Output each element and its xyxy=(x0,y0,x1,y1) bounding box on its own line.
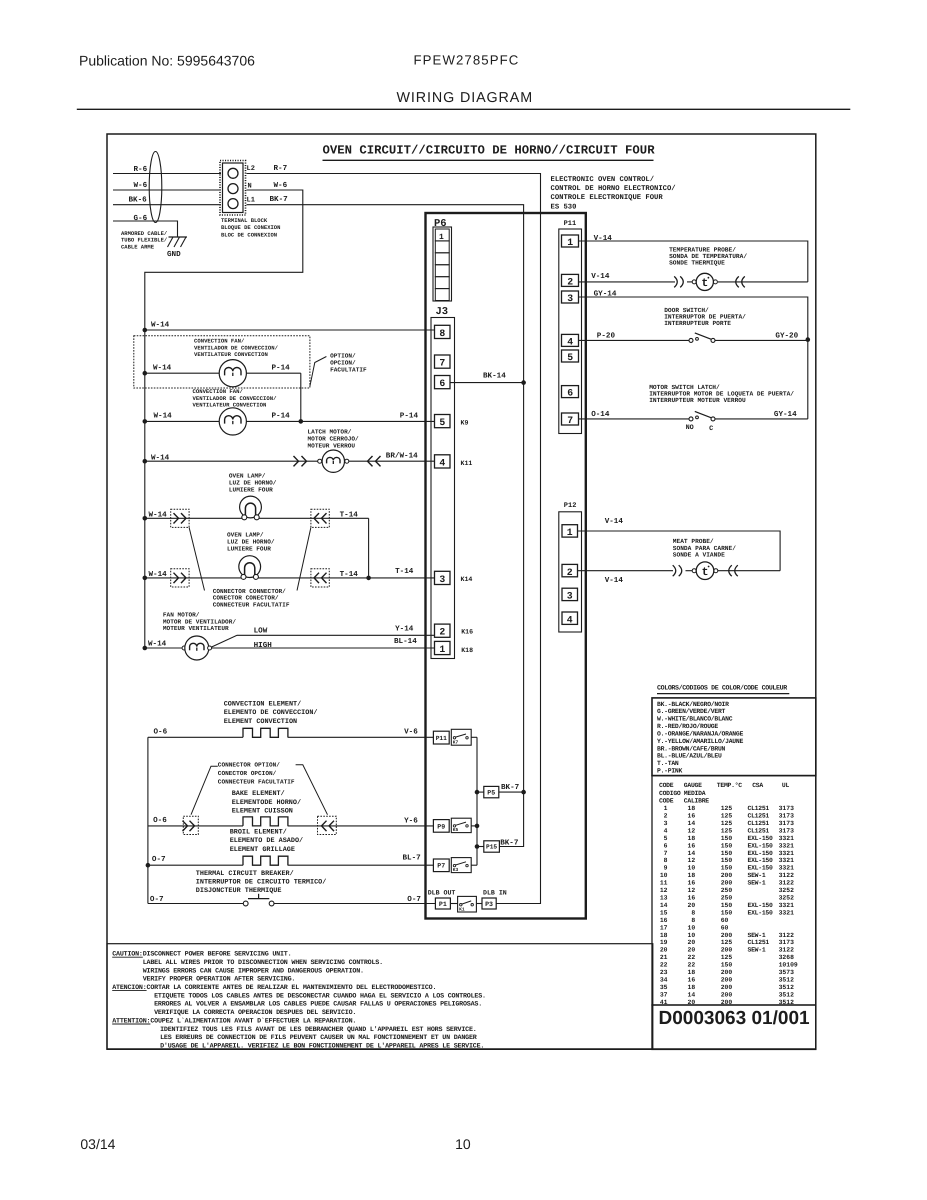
svg-text:BK.-BLACK/NEGRO/NOIR: BK.-BLACK/NEGRO/NOIR xyxy=(657,701,729,708)
svg-text:MEDIDA: MEDIDA xyxy=(684,790,706,797)
drawing number box D0003063 xyxy=(652,1005,816,1049)
svg-text:LUMIERE FOUR: LUMIERE FOUR xyxy=(227,546,271,553)
svg-text:18: 18 xyxy=(688,969,696,976)
svg-text:EXL-150: EXL-150 xyxy=(748,857,774,864)
svg-text:GY-14: GY-14 xyxy=(774,410,797,419)
svg-text:16: 16 xyxy=(660,917,668,924)
svg-text:T.-TAN: T.-TAN xyxy=(657,760,679,767)
motor latch switch S2 xyxy=(686,410,808,433)
convection fan 2 caption xyxy=(193,388,278,409)
svg-text:C: C xyxy=(709,425,713,433)
svg-text:10: 10 xyxy=(688,865,696,872)
svg-text:TERMINAL BLOCK: TERMINAL BLOCK xyxy=(221,217,268,224)
svg-text:Y-14: Y-14 xyxy=(395,625,414,633)
svg-text:V-14: V-14 xyxy=(605,518,624,526)
svg-text:O-14: O-14 xyxy=(591,410,610,419)
svg-text:SEW-1: SEW-1 xyxy=(748,947,766,954)
outer diagram border xyxy=(107,134,816,1049)
svg-text:UL: UL xyxy=(782,782,790,789)
svg-text:K9: K9 xyxy=(461,420,469,427)
svg-text:3321: 3321 xyxy=(779,835,795,842)
wire O-14 P11 pin7 xyxy=(579,410,690,419)
svg-text:O.-ORANGE/NARANJA/ORANGE: O.-ORANGE/NARANJA/ORANGE xyxy=(657,731,743,738)
svg-text:22: 22 xyxy=(688,962,696,969)
svg-text:VERIFIQUE LA CORRECTA OPERACIO: VERIFIQUE LA CORRECTA OPERACION DESPUES … xyxy=(154,1009,356,1017)
svg-text:P6: P6 xyxy=(434,218,447,230)
armored cable label xyxy=(121,230,168,251)
svg-text:12: 12 xyxy=(688,828,696,835)
wire R-7 from terminal L2 down to DLB IN xyxy=(247,165,541,904)
connector P1, relay K1, connector P3 xyxy=(435,896,496,912)
svg-text:12: 12 xyxy=(660,887,668,894)
svg-text:SONDE A VIANDE: SONDE A VIANDE xyxy=(673,551,725,558)
svg-text:ELEMENT GRILLAGE: ELEMENT GRILLAGE xyxy=(230,846,295,854)
convection fan 1 caption xyxy=(194,338,279,359)
svg-text:CALIBRE: CALIBRE xyxy=(684,798,710,805)
svg-text:3321: 3321 xyxy=(779,909,795,916)
svg-text:MOTOR CERROJO/: MOTOR CERROJO/ xyxy=(308,436,360,443)
svg-text:Y.-YELLOW/AMARILLO/JAUNE: Y.-YELLOW/AMARILLO/JAUNE xyxy=(657,738,743,745)
svg-text:20: 20 xyxy=(688,939,696,946)
svg-text:W-14: W-14 xyxy=(153,365,172,373)
svg-text:2: 2 xyxy=(567,567,573,578)
svg-text:18: 18 xyxy=(688,984,696,991)
svg-text:6: 6 xyxy=(439,378,445,389)
svg-text:EXL-150: EXL-150 xyxy=(748,835,774,842)
svg-text:K11: K11 xyxy=(461,460,473,467)
svg-text:MOTEUR VERROU: MOTEUR VERROU xyxy=(308,443,356,450)
svg-text:8: 8 xyxy=(439,328,445,339)
svg-text:P-14: P-14 xyxy=(400,413,419,421)
svg-text:3512: 3512 xyxy=(779,977,795,984)
temperature probe caption xyxy=(669,246,747,266)
svg-text:3173: 3173 xyxy=(779,813,795,820)
svg-text:GY-14: GY-14 xyxy=(594,290,617,299)
connector option caption with leaders xyxy=(191,762,328,815)
svg-text:150: 150 xyxy=(721,962,733,969)
svg-text:COLORS/CODIGOS DE COLOR/CODE C: COLORS/CODIGOS DE COLOR/CODE COULEUR xyxy=(657,684,787,691)
svg-text:GY-20: GY-20 xyxy=(775,332,798,341)
svg-text:EXL-150: EXL-150 xyxy=(748,909,774,916)
svg-text:BL.-BLUE/AZUL/BLEU: BL.-BLUE/AZUL/BLEU xyxy=(657,753,722,760)
svg-text:23: 23 xyxy=(660,969,668,976)
svg-text:EXL-150: EXL-150 xyxy=(748,842,774,849)
svg-text:ELEMENTODE HORNO/: ELEMENTODE HORNO/ xyxy=(232,799,301,807)
svg-text:P-14: P-14 xyxy=(272,413,291,421)
svg-text:K14: K14 xyxy=(461,576,473,583)
wire fan1 to fan2 junction xyxy=(299,373,304,424)
motor switch latch caption xyxy=(649,384,794,404)
svg-text:10: 10 xyxy=(455,1136,471,1152)
svg-text:W-6: W-6 xyxy=(134,181,148,190)
svg-text:VERIFY PROPER OPERATION AFTER: VERIFY PROPER OPERATION AFTER SERVICING. xyxy=(143,976,296,984)
svg-text:OVEN CIRCUIT//CIRCUITO DE HORN: OVEN CIRCUIT//CIRCUITO DE HORNO//CIRCUIT… xyxy=(323,143,656,157)
svg-text:INTERRUPTOR DE CIRCUITO TERMIC: INTERRUPTOR DE CIRCUITO TERMICO/ xyxy=(196,879,327,887)
svg-text:THERMAL CIRCUIT BREAKER/: THERMAL CIRCUIT BREAKER/ xyxy=(196,870,294,878)
svg-text:CL1251: CL1251 xyxy=(748,813,770,820)
caution text xyxy=(112,951,486,1051)
latch motor caption xyxy=(308,429,360,450)
svg-text:EXL-150: EXL-150 xyxy=(748,865,774,872)
svg-text:3122: 3122 xyxy=(779,947,795,954)
svg-text:2: 2 xyxy=(567,277,573,288)
svg-text:35: 35 xyxy=(660,984,668,991)
svg-text:200: 200 xyxy=(721,947,733,954)
svg-text:TEMP.°C: TEMP.°C xyxy=(717,782,743,789)
svg-text:BK-7: BK-7 xyxy=(270,196,289,204)
ground symbol GND xyxy=(167,237,187,259)
svg-text:3321: 3321 xyxy=(779,842,795,849)
svg-text:14: 14 xyxy=(660,902,668,909)
svg-text:3: 3 xyxy=(567,591,573,602)
svg-text:P9: P9 xyxy=(437,823,445,830)
svg-text:200: 200 xyxy=(721,969,733,976)
svg-text:Y-6: Y-6 xyxy=(404,816,418,825)
svg-text:6: 6 xyxy=(664,842,668,849)
svg-text:V-14: V-14 xyxy=(605,577,624,585)
svg-text:3: 3 xyxy=(664,820,668,827)
svg-text:CONNECTOR OPTION/: CONNECTOR OPTION/ xyxy=(218,762,281,769)
svg-text:LABEL ALL WIRES PRIOR TO DISCO: LABEL ALL WIRES PRIOR TO DISCONNECTION W… xyxy=(143,959,383,967)
wire V-14 P11 pin1 xyxy=(579,235,808,282)
svg-text:V-14: V-14 xyxy=(591,273,610,281)
svg-text:3252: 3252 xyxy=(779,887,795,894)
svg-text:17: 17 xyxy=(660,924,668,931)
svg-text:ATENCION:CORTAR LA CORRIENTE A: ATENCION:CORTAR LA CORRIENTE ANTES DE RE… xyxy=(112,984,436,992)
svg-text:HIGH: HIGH xyxy=(254,641,273,650)
svg-text:ELEMENTO DE ASADO/: ELEMENTO DE ASADO/ xyxy=(230,837,303,845)
wire P-20 P11 pin4 xyxy=(579,332,690,341)
svg-text:BLOQUE DE CONEXION: BLOQUE DE CONEXION xyxy=(221,224,280,231)
svg-text:LES ERREURS DE CONNECTION DE F: LES ERREURS DE CONNECTION DE FILS PEUVEN… xyxy=(160,1034,477,1042)
svg-text:3252: 3252 xyxy=(779,895,795,902)
convection fan 1 motor M1 xyxy=(143,360,301,387)
svg-text:16: 16 xyxy=(688,813,696,820)
meat probe xyxy=(578,562,781,585)
O-6/O-7 element bus xyxy=(146,737,151,903)
svg-text:LATCH MOTOR/: LATCH MOTOR/ xyxy=(308,429,352,436)
convection element caption xyxy=(224,701,318,726)
svg-text:3: 3 xyxy=(567,293,573,304)
svg-text:CL1251: CL1251 xyxy=(748,805,770,812)
svg-text:P5: P5 xyxy=(487,790,495,797)
svg-text:CL1251: CL1251 xyxy=(748,828,770,835)
svg-text:7: 7 xyxy=(567,415,573,426)
wire W-6 xyxy=(113,181,221,190)
svg-text:BL-7: BL-7 xyxy=(403,855,422,863)
svg-text:O-6: O-6 xyxy=(154,727,168,736)
svg-text:3512: 3512 xyxy=(779,984,795,991)
latch motor M3 xyxy=(143,450,435,472)
electronic oven control caption xyxy=(551,175,676,212)
svg-text:15: 15 xyxy=(660,909,668,916)
colors heading xyxy=(657,684,789,693)
svg-text:EXL-150: EXL-150 xyxy=(748,902,774,909)
svg-text:9: 9 xyxy=(664,865,668,872)
svg-text:DISJONCTEUR THERMIQUE: DISJONCTEUR THERMIQUE xyxy=(196,887,282,895)
svg-text:BK-7: BK-7 xyxy=(500,839,519,847)
svg-text:3173: 3173 xyxy=(779,939,795,946)
relay connector P11 (DLB) and relay K7 xyxy=(433,729,477,745)
svg-text:3173: 3173 xyxy=(779,828,795,835)
header model number xyxy=(414,53,520,68)
svg-text:CL1251: CL1251 xyxy=(748,820,770,827)
svg-text:INTERRUPTEUR MOTEUR VERROU: INTERRUPTEUR MOTEUR VERROU xyxy=(649,397,746,404)
svg-text:P3: P3 xyxy=(485,901,493,908)
svg-text:IDENTIFIEZ TOUS LES FILS AVANT: IDENTIFIEZ TOUS LES FILS AVANT DE LES DE… xyxy=(160,1026,477,1034)
svg-text:1: 1 xyxy=(439,644,445,655)
svg-text:R-6: R-6 xyxy=(134,165,148,174)
svg-text:BLOC DE CONNEXION: BLOC DE CONNEXION xyxy=(221,231,277,238)
svg-text:P1: P1 xyxy=(439,901,447,908)
svg-text:R.-RED/ROJO/ROUGE: R.-RED/ROJO/ROUGE xyxy=(657,723,718,730)
svg-text:W-14: W-14 xyxy=(151,455,170,463)
connector P12 xyxy=(559,502,582,632)
svg-text:3: 3 xyxy=(439,574,445,585)
svg-text:14: 14 xyxy=(688,820,696,827)
terminal block xyxy=(220,161,246,216)
svg-text:ELEMENT CONVECTION: ELEMENT CONVECTION xyxy=(224,718,297,726)
header rule xyxy=(77,108,851,110)
svg-text:20: 20 xyxy=(660,947,668,954)
svg-text:ELEMENT CUISSON: ELEMENT CUISSON xyxy=(232,808,293,816)
svg-text:K3: K3 xyxy=(453,867,459,873)
svg-text:3512: 3512 xyxy=(779,991,795,998)
wire W-14 to J3 pin 8 xyxy=(143,321,435,332)
svg-text:O-7: O-7 xyxy=(407,895,421,904)
oven lamp 1 xyxy=(143,496,369,527)
svg-text:BK-6: BK-6 xyxy=(129,196,148,205)
svg-text:LUZ DE HORNO/: LUZ DE HORNO/ xyxy=(229,480,277,487)
svg-text:G-6: G-6 xyxy=(134,214,148,223)
connector J3 xyxy=(431,306,455,659)
svg-text:V-14: V-14 xyxy=(594,235,613,243)
wire BK-14 J3 pin6 to BK bus xyxy=(450,373,526,385)
svg-text:BR.-BROWN/CAFE/BRUN: BR.-BROWN/CAFE/BRUN xyxy=(657,745,726,752)
svg-text:W-6: W-6 xyxy=(274,181,288,190)
broil element heater xyxy=(148,855,434,866)
svg-text:LUZ DE HORNO/: LUZ DE HORNO/ xyxy=(227,539,275,546)
svg-text:3122: 3122 xyxy=(779,932,795,939)
thermal circuit breaker xyxy=(148,894,436,906)
schematic title OVEN CIRCUIT xyxy=(323,143,656,160)
svg-text:125: 125 xyxy=(721,828,733,835)
svg-text:BAKE ELEMENT/: BAKE ELEMENT/ xyxy=(232,790,285,798)
svg-text:GND: GND xyxy=(167,250,181,259)
svg-text:W-14: W-14 xyxy=(154,413,173,421)
svg-text:CONTROL DE HORNO ELECTRONICO/: CONTROL DE HORNO ELECTRONICO/ xyxy=(551,184,676,193)
relay output bus vertical xyxy=(475,737,480,865)
svg-text:3321: 3321 xyxy=(779,865,795,872)
oven lamp 2 xyxy=(143,556,435,587)
svg-text:37: 37 xyxy=(660,991,668,998)
svg-text:P11: P11 xyxy=(436,735,447,742)
door switch S1 xyxy=(689,332,808,343)
svg-text:ETIQUETE TODOS LOS CABLES ANTE: ETIQUETE TODOS LOS CABLES ANTES DE DESCO… xyxy=(154,992,486,1000)
svg-text:8: 8 xyxy=(691,909,695,916)
svg-text:5: 5 xyxy=(439,417,445,428)
svg-text:12: 12 xyxy=(688,857,696,864)
svg-text:SEW-1: SEW-1 xyxy=(748,880,766,887)
svg-text:18: 18 xyxy=(688,872,696,879)
oven lamp 1 caption xyxy=(229,473,277,494)
svg-text:L2: L2 xyxy=(247,165,255,173)
connector P7 and relay K3 xyxy=(433,858,477,874)
svg-text:10: 10 xyxy=(688,932,696,939)
svg-text:3173: 3173 xyxy=(779,805,795,812)
svg-text:CODE: CODE xyxy=(659,782,674,789)
svg-text:P12: P12 xyxy=(564,502,577,510)
svg-text:DLB OUT: DLB OUT xyxy=(428,890,456,897)
svg-text:BK-14: BK-14 xyxy=(483,373,506,381)
svg-text:16: 16 xyxy=(688,842,696,849)
svg-text:MOTEUR VENTILATEUR: MOTEUR VENTILATEUR xyxy=(163,625,229,632)
svg-text:125: 125 xyxy=(721,805,733,812)
svg-text:125: 125 xyxy=(721,954,733,961)
svg-text:W-14: W-14 xyxy=(149,571,168,579)
svg-text:ES 530: ES 530 xyxy=(551,203,577,211)
connector P6 xyxy=(433,218,452,301)
temperature probe xyxy=(579,273,808,291)
svg-text:OPCION/: OPCION/ xyxy=(330,360,356,367)
meat probe caption xyxy=(673,538,736,558)
svg-text:L1: L1 xyxy=(247,196,255,204)
wire W-6 from terminal N to W-14 bus xyxy=(145,181,303,648)
svg-text:150: 150 xyxy=(721,835,733,842)
thermal circuit breaker caption xyxy=(196,870,327,895)
svg-text:CONTROLE ELECTRONIQUE FOUR: CONTROLE ELECTRONIQUE FOUR xyxy=(551,194,664,202)
svg-text:2: 2 xyxy=(664,813,668,820)
connector P11 (control) xyxy=(559,220,582,434)
svg-text:6: 6 xyxy=(567,388,573,399)
svg-text:7: 7 xyxy=(439,358,445,369)
svg-text:34: 34 xyxy=(660,977,668,984)
wire V-14 P12 pin1 xyxy=(578,518,781,571)
svg-text:125: 125 xyxy=(721,813,733,820)
svg-text:3321: 3321 xyxy=(779,857,795,864)
svg-text:11: 11 xyxy=(660,880,668,887)
J3 relay pin labels xyxy=(461,420,474,654)
svg-text:K7: K7 xyxy=(453,740,459,746)
svg-text:T-14: T-14 xyxy=(395,568,414,576)
wire GY-14 P11 pin3 xyxy=(579,290,811,419)
svg-text:3122: 3122 xyxy=(779,872,795,879)
connector connector caption with leaders xyxy=(189,527,311,608)
svg-text:OPTION/: OPTION/ xyxy=(330,352,356,359)
svg-text:4: 4 xyxy=(664,828,668,835)
svg-text:CABLE ARME: CABLE ARME xyxy=(121,243,155,250)
svg-text:EXL-150: EXL-150 xyxy=(748,850,774,857)
electronic oven control module box xyxy=(426,213,586,919)
wire gauge table box xyxy=(652,776,816,1006)
svg-text:14: 14 xyxy=(688,850,696,857)
svg-text:150: 150 xyxy=(721,842,733,849)
svg-text:150: 150 xyxy=(721,865,733,872)
svg-text:1: 1 xyxy=(567,237,573,248)
svg-text:INTERRUPTEUR PORTE: INTERRUPTEUR PORTE xyxy=(664,320,731,327)
svg-text:O-7: O-7 xyxy=(152,855,166,864)
svg-text:10109: 10109 xyxy=(779,962,798,969)
svg-text:5: 5 xyxy=(664,835,668,842)
svg-text:5: 5 xyxy=(567,352,573,363)
svg-text:3173: 3173 xyxy=(779,820,795,827)
fan motor caption xyxy=(163,612,236,633)
svg-text:t: t xyxy=(701,277,708,290)
svg-text:O-6: O-6 xyxy=(153,816,167,825)
connector P15 xyxy=(477,839,524,852)
svg-text:18: 18 xyxy=(688,805,696,812)
svg-text:21: 21 xyxy=(660,954,668,961)
svg-text:150: 150 xyxy=(721,857,733,864)
svg-text:R-7: R-7 xyxy=(274,165,288,173)
svg-text:BR/W-14: BR/W-14 xyxy=(386,452,418,461)
svg-text:FPEW2785PFC: FPEW2785PFC xyxy=(414,53,520,68)
svg-text:7: 7 xyxy=(664,850,668,857)
svg-text:D'USAGE DE L'APPAREIL. VERIFIE: D'USAGE DE L'APPAREIL. VERIFIEZ LE BON F… xyxy=(160,1043,484,1051)
svg-text:3122: 3122 xyxy=(779,880,795,887)
svg-text:V-6: V-6 xyxy=(404,727,418,736)
footer page number xyxy=(455,1136,471,1152)
svg-text:8: 8 xyxy=(664,857,668,864)
connector P9 and relay K5 xyxy=(433,818,477,833)
svg-text:4: 4 xyxy=(567,614,573,625)
svg-text:250: 250 xyxy=(721,887,733,894)
svg-text:W-14: W-14 xyxy=(149,512,168,520)
svg-text:P-14: P-14 xyxy=(272,365,291,373)
svg-text:Publication No: 5995643706: Publication No: 5995643706 xyxy=(79,53,255,69)
svg-text:3321: 3321 xyxy=(779,850,795,857)
svg-text:BROIL ELEMENT/: BROIL ELEMENT/ xyxy=(230,829,287,837)
svg-text:150: 150 xyxy=(721,909,733,916)
svg-text:SEW-1: SEW-1 xyxy=(748,932,766,939)
svg-text:VENTILATEUR CONVECTION: VENTILATEUR CONVECTION xyxy=(194,351,268,358)
svg-text:20: 20 xyxy=(688,902,696,909)
svg-text:3268: 3268 xyxy=(779,954,795,961)
svg-text:BL-14: BL-14 xyxy=(394,638,417,646)
svg-text:10: 10 xyxy=(660,872,668,879)
svg-text:1: 1 xyxy=(664,805,668,812)
svg-text:CONECTOR OPCION/: CONECTOR OPCION/ xyxy=(218,770,277,777)
svg-text:CONVECTION ELEMENT/: CONVECTION ELEMENT/ xyxy=(224,701,302,709)
svg-text:18: 18 xyxy=(688,835,696,842)
svg-text:OVEN LAMP/: OVEN LAMP/ xyxy=(229,473,266,480)
svg-text:125: 125 xyxy=(721,939,733,946)
caution box xyxy=(107,944,653,1050)
svg-text:150: 150 xyxy=(721,902,733,909)
svg-text:16: 16 xyxy=(688,977,696,984)
svg-text:14: 14 xyxy=(688,991,696,998)
svg-text:SONDE THERMIQUE: SONDE THERMIQUE xyxy=(669,260,725,267)
svg-text:t: t xyxy=(702,566,709,579)
footer date xyxy=(80,1136,115,1152)
svg-text:WIRINGS ERRORS CAN CAUSE IMPRO: WIRINGS ERRORS CAN CAUSE IMPROPER AND DA… xyxy=(143,967,364,975)
svg-text:18: 18 xyxy=(660,932,668,939)
svg-text:SEW-1: SEW-1 xyxy=(748,872,766,879)
wire lamp1 to lamp2 junction xyxy=(366,518,371,580)
svg-text:OVEN LAMP/: OVEN LAMP/ xyxy=(227,532,264,539)
armored cable sheath ellipse xyxy=(149,152,162,223)
svg-text:LOW: LOW xyxy=(254,626,268,635)
svg-text:3321: 3321 xyxy=(779,902,795,909)
svg-text:W-14: W-14 xyxy=(148,640,167,648)
svg-text:13: 13 xyxy=(660,895,668,902)
svg-text:03/14: 03/14 xyxy=(80,1136,115,1152)
terminal block pin labels L2 N L1 xyxy=(247,165,255,204)
bake element heater with connectors xyxy=(148,816,434,835)
svg-text:D0003063 01/001: D0003063 01/001 xyxy=(659,1008,811,1029)
svg-text:CL1251: CL1251 xyxy=(748,939,770,946)
svg-text:CONNECTEUR FACULTATIF: CONNECTEUR FACULTATIF xyxy=(213,601,290,608)
